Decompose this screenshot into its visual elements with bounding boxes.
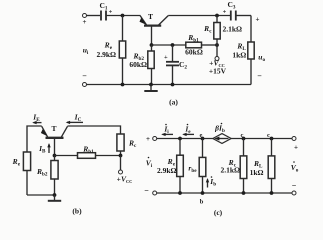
ground (b) <box>48 195 61 201</box>
arrow Ib (c) <box>206 178 209 188</box>
node rail junction (b) <box>53 193 57 197</box>
wire collector top (b) <box>68 126 121 134</box>
svg-text:Ie: Ie <box>184 125 191 136</box>
svg-text:2.9kΩ: 2.9kΩ <box>96 50 116 59</box>
resistor Rc (b) <box>117 134 124 151</box>
labels circuit (c) <box>144 123 298 217</box>
svg-text:−: − <box>82 72 87 81</box>
node collector junction (a) <box>215 14 219 18</box>
svg-text:Rb1: Rb1 <box>82 145 94 156</box>
svg-text:c: c <box>241 132 244 139</box>
svg-text:(c): (c) <box>214 208 223 217</box>
svg-text:Ib: Ib <box>209 177 216 188</box>
node base junction (a) <box>150 43 154 47</box>
wire top rail right (c) <box>231 138 292 140</box>
svg-text:+: + <box>109 9 113 16</box>
node output + terminal (c) <box>292 137 296 141</box>
labels circuit (a) <box>82 0 265 107</box>
svg-text:2.9kΩ: 2.9kΩ <box>157 166 177 175</box>
svg-text:IE: IE <box>32 113 40 124</box>
svg-text:+: + <box>223 9 227 16</box>
svg-text:C2: C2 <box>179 60 187 71</box>
svg-text:IC: IC <box>74 113 82 124</box>
node rail junction Re <box>121 83 125 87</box>
svg-text:+: + <box>83 18 87 26</box>
node input - terminal (c) <box>153 191 157 195</box>
wire Rc leads (c) <box>243 139 245 156</box>
wire ground rail (a) <box>87 84 252 86</box>
svg-text:+: + <box>146 135 150 143</box>
wire node A down to Re <box>122 16 124 42</box>
svg-text:−: − <box>292 181 297 190</box>
node rail junction RL (c) <box>270 191 274 195</box>
svg-text:b: b <box>200 199 204 206</box>
node base junction (b) <box>53 154 57 158</box>
resistor Rb1 (a) <box>186 42 202 48</box>
wire rbe leads (c) <box>202 139 204 158</box>
wire Rc leads <box>216 16 218 23</box>
node input - terminal (a) <box>83 83 87 87</box>
arrow IC <box>66 121 83 124</box>
node rail junction Rc (c) <box>242 191 246 195</box>
svg-text:Vi: Vi <box>146 159 153 170</box>
node c junction RL (c) <box>270 137 274 141</box>
node rail junction rbe (c) <box>201 191 205 195</box>
wire right edge down to RL <box>250 16 252 43</box>
svg-text:1kΩ: 1kΩ <box>232 51 246 60</box>
wire ground rail (b) <box>27 194 55 196</box>
node rail junction C2 <box>171 83 175 87</box>
svg-text:Re: Re <box>12 157 21 168</box>
resistor Re (a) <box>119 41 125 58</box>
wire Vcc stub <box>216 45 218 57</box>
svg-text:60kΩ: 60kΩ <box>185 48 203 57</box>
arrow Ii <box>161 133 173 136</box>
wire Rb1 to Vcc node <box>202 44 218 46</box>
svg-text:−: − <box>257 72 262 81</box>
node Re top junction (c) <box>178 137 182 141</box>
transistor T (b) <box>41 126 68 138</box>
ground (a) <box>144 85 157 92</box>
wire top rail left (c) <box>157 138 213 140</box>
resistor RL (c) <box>268 156 275 179</box>
svg-text:1kΩ: 1kΩ <box>250 168 264 177</box>
wire base node to Rb1 <box>152 44 186 46</box>
wire collector rail <box>168 15 230 17</box>
arrow Ie <box>182 133 194 136</box>
svg-text:c: c <box>267 132 270 139</box>
svg-text:Rb2: Rb2 <box>36 167 48 178</box>
node rail junction Rb2 <box>149 83 153 87</box>
resistor Re (c) <box>177 155 184 176</box>
resistor Rb1 (b) <box>78 153 96 159</box>
svg-text:+: + <box>256 16 260 24</box>
arrow IB <box>47 143 50 153</box>
svg-text:(b): (b) <box>72 207 82 216</box>
svg-text:Rc: Rc <box>128 139 137 150</box>
wire Vcc stub (b) <box>120 156 122 171</box>
wire RL leads (c) <box>271 139 273 156</box>
resistor RL (a) <box>248 42 254 59</box>
node: input + terminal (a) <box>83 14 87 18</box>
svg-text:T: T <box>51 124 56 133</box>
wire C2 top lead <box>172 45 174 62</box>
svg-text:+15V: +15V <box>209 67 227 76</box>
controlled source beta-ib (diamond) <box>213 134 231 144</box>
svg-text:rbe: rbe <box>188 164 197 175</box>
resistor Rb2 (a) <box>148 51 154 69</box>
wire Rb2 leads <box>151 45 153 51</box>
svg-text:+: + <box>294 144 298 152</box>
labels circuit (b) <box>12 113 137 216</box>
node A junction (emitter node, a) <box>121 14 125 18</box>
node input + terminal (c) <box>153 137 157 141</box>
svg-text:60kΩ: 60kΩ <box>129 60 147 69</box>
svg-text:+: + <box>164 54 168 61</box>
svg-text:βIb: βIb <box>214 124 225 135</box>
svg-text:C1: C1 <box>99 1 107 12</box>
transistor T (a) <box>140 16 169 26</box>
node +Vcc terminal (b) <box>119 170 123 174</box>
wire Rb2 leads (b) <box>54 156 56 161</box>
node +Vcc terminal (a) <box>215 57 219 61</box>
svg-text:+VCC: +VCC <box>117 175 133 185</box>
wire RL to ground rail <box>250 59 252 85</box>
wire base lead down <box>151 27 153 46</box>
svg-text:Rc: Rc <box>203 24 212 35</box>
node rail junction Re (c) <box>178 191 182 195</box>
svg-text:e: e <box>200 132 203 139</box>
resistor Rb2 (b) <box>51 161 58 180</box>
svg-text:Ii: Ii <box>163 125 169 136</box>
svg-text:uo: uo <box>258 53 265 64</box>
node output - terminal (c) <box>292 191 296 195</box>
node c junction Rc (c) <box>242 137 246 141</box>
wire base node to Rb1 (b) <box>55 155 78 157</box>
resistor Rc (a) <box>214 23 220 40</box>
wire Re to rail (b) <box>26 171 28 196</box>
arrow IE <box>32 121 41 124</box>
svg-text:2.1kΩ: 2.1kΩ <box>220 166 240 175</box>
wire Re leads (c) <box>179 139 181 156</box>
wire Rc bottom (b) <box>120 151 122 156</box>
svg-text:Vo: Vo <box>291 163 299 174</box>
capacitor C1 <box>101 11 106 21</box>
svg-text:−: − <box>144 186 149 195</box>
wire input to C1 <box>87 15 101 17</box>
resistor Rc (c) <box>240 156 247 179</box>
wire Rb1 to Rc node (b) <box>96 155 121 157</box>
node e junction (c) <box>201 137 205 141</box>
capacitor C2 <box>166 62 179 66</box>
wire C1 to emitter node <box>107 15 141 17</box>
wire base lead (b) <box>54 139 56 156</box>
svg-text:ui: ui <box>83 46 89 57</box>
svg-text:Rb1: Rb1 <box>187 33 199 44</box>
wire C3 to output corner <box>236 15 251 17</box>
resistor Re (b) <box>23 152 30 171</box>
resistor rbe (c) <box>199 157 206 176</box>
node Rc junction (b) <box>119 154 123 158</box>
node C2 top junction <box>171 43 175 47</box>
wire bottom rail (c) <box>157 192 292 194</box>
svg-text:IB: IB <box>38 144 46 155</box>
wire emitter top (b) <box>27 126 42 152</box>
svg-text:2.1kΩ: 2.1kΩ <box>223 25 243 34</box>
wire Re to ground rail <box>122 58 124 85</box>
node Vcc junction (a) <box>215 43 219 47</box>
svg-text:T: T <box>148 12 153 21</box>
svg-text:(a): (a) <box>169 98 178 107</box>
wire C2 bottom lead <box>172 65 174 84</box>
svg-text:C3: C3 <box>227 0 235 11</box>
capacitor C3 <box>231 11 236 21</box>
